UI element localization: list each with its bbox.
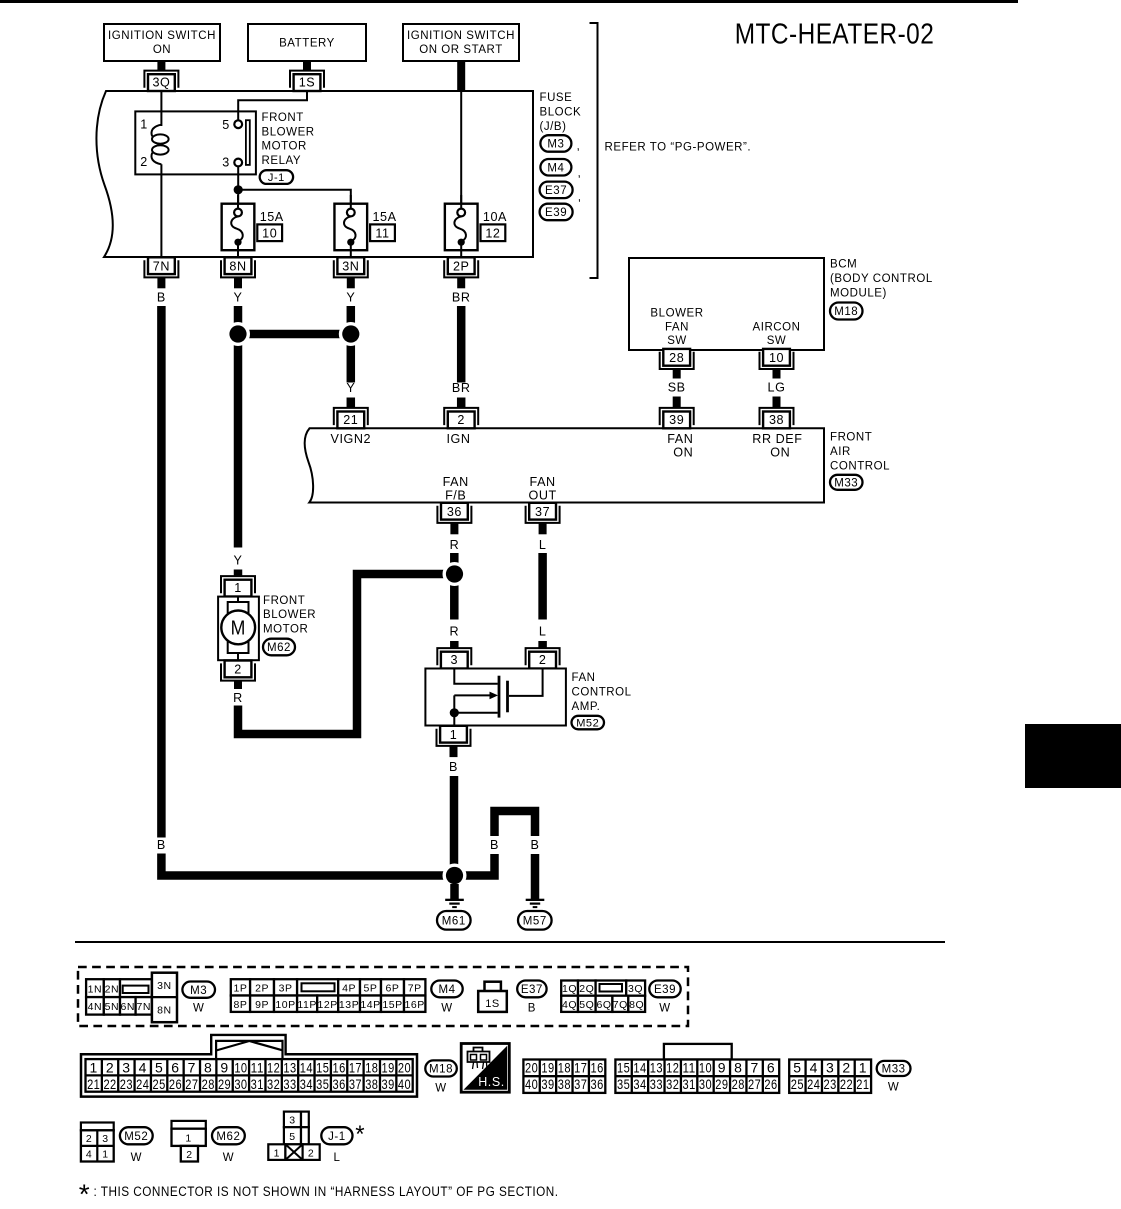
fuse number box 12 — [481, 224, 506, 241]
svg-text:IGN: IGN — [446, 432, 470, 446]
svg-text:6: 6 — [767, 1060, 775, 1076]
svg-text:B: B — [528, 1003, 536, 1015]
connector face J-1 — [284, 1112, 301, 1128]
svg-text:REFER TO “PG-POWER”.: REFER TO “PG-POWER”. — [605, 142, 752, 154]
stub below motor — [234, 681, 242, 689]
stub from BATTERY to 1S — [303, 61, 311, 72]
svg-text:M52: M52 — [124, 1131, 148, 1143]
svg-text:33: 33 — [650, 1076, 663, 1092]
svg-text:8: 8 — [734, 1060, 742, 1076]
svg-text:23: 23 — [120, 1076, 133, 1092]
svg-text:W: W — [441, 1003, 452, 1015]
front blower motor body — [218, 597, 259, 661]
svg-text:OUT: OUT — [528, 488, 556, 502]
BCM connector 10 — [760, 352, 794, 369]
svg-text:R: R — [449, 625, 459, 639]
svg-text:M62: M62 — [216, 1131, 240, 1143]
svg-text:2: 2 — [842, 1060, 850, 1076]
svg-text:1: 1 — [90, 1059, 98, 1075]
svg-text:14: 14 — [300, 1059, 313, 1075]
connector oval M18 id — [425, 1060, 457, 1076]
wire 1S to relay pin 5 — [238, 91, 307, 120]
connector oval M52 id — [120, 1127, 153, 1144]
relay pin 5 contact circle — [234, 120, 242, 128]
svg-text:12P: 12P — [318, 999, 338, 1011]
svg-text:9: 9 — [718, 1060, 726, 1076]
svg-text:10: 10 — [262, 227, 277, 241]
svg-text:18: 18 — [558, 1060, 571, 1076]
stub below 3N — [347, 278, 355, 289]
svg-text:7N: 7N — [153, 259, 170, 273]
svg-text:E37: E37 — [545, 185, 567, 197]
blower motor connector 1 — [221, 576, 255, 593]
svg-text:M33: M33 — [882, 1064, 906, 1076]
svg-text:IGNITION SWITCH: IGNITION SWITCH — [108, 30, 216, 42]
wire B loop to M57 ground — [459, 854, 495, 876]
motor symbol M circle — [221, 611, 255, 645]
connector oval M18 — [830, 303, 863, 320]
dashed connector group border — [78, 967, 688, 1026]
svg-text:26: 26 — [764, 1076, 777, 1092]
svg-text:14P: 14P — [360, 999, 380, 1011]
svg-text:7Q: 7Q — [613, 999, 628, 1011]
stub above 39 — [673, 397, 681, 408]
svg-text:15P: 15P — [382, 999, 402, 1011]
connector 8N — [221, 260, 255, 277]
svg-text:15A: 15A — [373, 210, 397, 224]
connector oval J-1 id — [321, 1127, 352, 1144]
svg-text:25: 25 — [153, 1076, 166, 1092]
connector oval M33 — [830, 475, 863, 490]
svg-text:29: 29 — [218, 1076, 231, 1092]
svg-text:24: 24 — [136, 1076, 149, 1092]
svg-text:33: 33 — [283, 1076, 296, 1092]
connector 36 — [437, 506, 471, 523]
svg-text:,: , — [577, 139, 581, 153]
svg-text:B: B — [490, 838, 499, 852]
connector 3Q — [144, 71, 178, 88]
svg-text:13: 13 — [283, 1059, 296, 1075]
svg-text:B: B — [449, 760, 458, 774]
svg-text:12: 12 — [666, 1060, 679, 1076]
svg-text:RELAY: RELAY — [262, 155, 302, 167]
svg-text:Y: Y — [346, 291, 355, 305]
svg-text:BLOWER: BLOWER — [263, 609, 316, 621]
svg-text:5Q: 5Q — [579, 999, 594, 1011]
svg-text:SB: SB — [668, 381, 686, 395]
relay pin 3 contact circle — [234, 159, 242, 167]
svg-text:ON: ON — [153, 44, 171, 56]
svg-text:R: R — [233, 691, 243, 705]
svg-text:BLOWER: BLOWER — [262, 126, 315, 138]
stub to M61 ground — [450, 884, 459, 899]
connector oval M62 id — [212, 1127, 245, 1144]
fan control amp box — [425, 669, 566, 726]
svg-text:8N: 8N — [157, 1005, 172, 1017]
svg-text:12: 12 — [485, 227, 500, 241]
svg-text:1: 1 — [140, 118, 148, 132]
svg-text:SW: SW — [667, 335, 687, 347]
svg-text:FAN: FAN — [665, 321, 689, 333]
BCM connector 28 — [660, 352, 694, 369]
svg-text:CONTROL: CONTROL — [572, 686, 632, 698]
svg-text:L: L — [334, 1152, 341, 1164]
svg-text:16: 16 — [591, 1060, 604, 1076]
svg-text:16P: 16P — [405, 999, 425, 1011]
svg-text:BLOWER: BLOWER — [650, 307, 703, 319]
svg-text:M33: M33 — [834, 477, 858, 489]
wire Y junction crossbar — [238, 330, 351, 339]
svg-text:27: 27 — [748, 1076, 761, 1092]
FRONT AIR CONTROL box with torn left edge — [305, 428, 824, 502]
right bracket — [590, 23, 598, 278]
H.S. view icon — [464, 1046, 508, 1090]
svg-text:2Q: 2Q — [579, 983, 594, 995]
svg-text:15: 15 — [617, 1060, 630, 1076]
svg-text:10: 10 — [234, 1059, 247, 1075]
svg-text:FRONT: FRONT — [262, 112, 304, 124]
svg-text:3: 3 — [102, 1133, 108, 1145]
svg-text:BATTERY: BATTERY — [279, 38, 335, 50]
svg-text:21: 21 — [343, 413, 358, 427]
svg-text:15A: 15A — [260, 210, 284, 224]
connector 38 — [760, 408, 794, 425]
connector oval M4 id — [431, 981, 462, 998]
fan control amp connector 1 — [437, 729, 471, 746]
svg-text:M3: M3 — [547, 139, 564, 151]
svg-text:J-1: J-1 — [268, 172, 285, 184]
svg-text:M4: M4 — [547, 162, 564, 174]
svg-text:9P: 9P — [255, 999, 269, 1011]
power source box IGNITION SWITCH ON — [104, 24, 220, 61]
svg-text:E39: E39 — [654, 984, 676, 996]
svg-text:MODULE): MODULE) — [830, 287, 887, 299]
svg-text:18: 18 — [365, 1059, 378, 1075]
svg-text:FUSE: FUSE — [540, 92, 573, 104]
wire Y from 8N to junction — [234, 306, 243, 334]
svg-text:3N: 3N — [342, 259, 359, 273]
svg-text:16: 16 — [332, 1059, 345, 1075]
stub above 38 — [773, 397, 781, 408]
svg-text:36: 36 — [332, 1076, 345, 1092]
svg-text:2: 2 — [106, 1059, 114, 1075]
stub below 2P — [457, 278, 465, 289]
svg-text:4Q: 4Q — [562, 999, 577, 1011]
svg-text:CONTROL: CONTROL — [830, 461, 890, 473]
svg-text:12: 12 — [267, 1059, 280, 1075]
svg-text:5N: 5N — [105, 1001, 120, 1013]
svg-text:2: 2 — [234, 663, 242, 677]
svg-text:39: 39 — [382, 1076, 395, 1092]
svg-text:SW: SW — [767, 335, 787, 347]
page top rule — [0, 0, 1018, 3]
svg-text:22: 22 — [840, 1076, 853, 1092]
svg-text:M18: M18 — [834, 306, 858, 318]
svg-text:31: 31 — [251, 1076, 264, 1092]
svg-text:4: 4 — [810, 1060, 818, 1076]
stub below 8N — [234, 278, 242, 289]
svg-text:1S: 1S — [485, 998, 500, 1010]
svg-text:39: 39 — [541, 1076, 554, 1092]
svg-text:6P: 6P — [386, 983, 400, 995]
svg-text:LG: LG — [768, 381, 786, 395]
svg-text:11P: 11P — [297, 999, 317, 1011]
svg-text:27: 27 — [185, 1076, 198, 1092]
svg-text:38: 38 — [769, 413, 784, 427]
svg-text:*: * — [355, 1121, 365, 1148]
junction dot R — [443, 562, 467, 586]
svg-text:RR DEF: RR DEF — [752, 432, 802, 446]
connector face 1S — [485, 982, 501, 993]
svg-text:R: R — [450, 538, 460, 552]
svg-text:10A: 10A — [483, 210, 507, 224]
connector face M52 — [81, 1123, 114, 1131]
svg-text:31: 31 — [683, 1076, 696, 1092]
svg-text:W: W — [193, 1003, 204, 1015]
svg-text:2: 2 — [539, 653, 547, 667]
svg-text:M4: M4 — [438, 984, 455, 996]
svg-text:7: 7 — [188, 1059, 196, 1075]
svg-text:1: 1 — [859, 1060, 867, 1076]
svg-text:13: 13 — [650, 1060, 663, 1076]
wire B from amp to ground junction — [450, 776, 459, 871]
svg-text:,: , — [578, 166, 582, 180]
svg-text:13P: 13P — [339, 999, 359, 1011]
svg-text:21: 21 — [856, 1076, 869, 1092]
svg-text:MTC-HEATER-02: MTC-HEATER-02 — [735, 19, 935, 51]
svg-text:28: 28 — [732, 1076, 745, 1092]
svg-text:26: 26 — [169, 1076, 182, 1092]
svg-text:6Q: 6Q — [596, 999, 611, 1011]
wire BR from 2P to FRONT AIR CONTROL pin 2 — [457, 306, 466, 383]
connector 2P — [444, 260, 478, 277]
svg-text:2: 2 — [140, 155, 148, 169]
svg-text:J-1: J-1 — [328, 1131, 346, 1143]
svg-text:23: 23 — [824, 1076, 837, 1092]
junction dot Y 2 — [339, 322, 363, 346]
svg-text:38: 38 — [365, 1076, 378, 1092]
svg-text:39: 39 — [669, 413, 684, 427]
svg-text:17: 17 — [574, 1060, 587, 1076]
svg-text:8: 8 — [204, 1059, 212, 1075]
svg-text:M52: M52 — [576, 718, 599, 730]
svg-text:8P: 8P — [233, 999, 247, 1011]
svg-text:32: 32 — [666, 1076, 679, 1092]
svg-text:34: 34 — [633, 1076, 646, 1092]
svg-text:11: 11 — [683, 1060, 696, 1076]
svg-text:1: 1 — [450, 728, 458, 742]
connector face M3 cells 1N-8N — [86, 979, 104, 997]
svg-text:(J/B): (J/B) — [540, 121, 567, 133]
svg-text:H.S.: H.S. — [478, 1075, 505, 1089]
svg-text:1S: 1S — [299, 76, 316, 90]
svg-text:2P: 2P — [255, 983, 269, 995]
svg-text:FAN: FAN — [443, 475, 469, 489]
svg-text:3P: 3P — [279, 983, 293, 995]
svg-text:5: 5 — [155, 1059, 163, 1075]
svg-text:32: 32 — [267, 1076, 280, 1092]
svg-text:2: 2 — [186, 1149, 192, 1161]
svg-text:B: B — [157, 291, 166, 305]
thick wire from IGNITION SWITCH ON OR START into fuse block — [457, 61, 465, 92]
wire R from 36 to fan control amp pin 3 — [450, 553, 459, 620]
svg-text:5: 5 — [289, 1131, 295, 1143]
junction dot Y — [226, 322, 250, 346]
fan control amp connector 3 — [437, 648, 471, 665]
connector 39 — [660, 408, 694, 425]
svg-text:Y: Y — [234, 291, 243, 305]
connector 1S — [290, 71, 324, 88]
connector 2 — [444, 408, 478, 425]
svg-text:37: 37 — [535, 505, 550, 519]
connector oval M52 — [572, 716, 605, 730]
svg-text:3N: 3N — [157, 980, 172, 992]
relay coil L1 — [151, 125, 161, 137]
connector 37 — [526, 506, 560, 523]
fan control amp connector 2 — [526, 648, 560, 665]
connector face M4 cells 1P-16P — [231, 979, 250, 995]
svg-text:19: 19 — [382, 1059, 395, 1075]
svg-text:1Q: 1Q — [562, 983, 577, 995]
svg-text:8Q: 8Q — [629, 999, 644, 1011]
svg-text:FAN: FAN — [530, 475, 556, 489]
svg-text:20: 20 — [398, 1059, 411, 1075]
svg-text:BR: BR — [452, 291, 471, 305]
stub below 28 — [673, 369, 681, 378]
junction dot B — [443, 864, 467, 888]
svg-text:3: 3 — [451, 653, 459, 667]
BCM box — [629, 258, 824, 350]
ground symbol M57 — [526, 899, 545, 901]
svg-text:2N: 2N — [105, 983, 120, 995]
svg-text:FAN: FAN — [572, 672, 596, 684]
connector oval M4 — [540, 159, 571, 176]
svg-text:38: 38 — [558, 1076, 571, 1092]
svg-text:W: W — [888, 1082, 899, 1094]
svg-text:40: 40 — [398, 1076, 411, 1092]
svg-text:40: 40 — [525, 1076, 538, 1092]
svg-text:MOTOR: MOTOR — [262, 141, 307, 153]
svg-text:17: 17 — [349, 1059, 362, 1075]
svg-text:7: 7 — [750, 1060, 758, 1076]
svg-text:AMP.: AMP. — [572, 701, 601, 713]
svg-text:FRONT: FRONT — [263, 595, 305, 607]
svg-text:29: 29 — [715, 1076, 728, 1092]
svg-text:14: 14 — [633, 1060, 646, 1076]
svg-text:ON OR START: ON OR START — [419, 44, 503, 56]
svg-text:1N: 1N — [88, 983, 103, 995]
svg-text:AIRCON: AIRCON — [752, 321, 800, 333]
svg-text:10: 10 — [769, 351, 784, 365]
svg-text:FRONT: FRONT — [830, 432, 872, 444]
svg-text:3: 3 — [826, 1060, 834, 1076]
svg-text:10P: 10P — [275, 999, 295, 1011]
blower motor connector 2 — [221, 663, 255, 680]
wire 3Q to relay coil — [160, 91, 162, 126]
svg-text:M: M — [231, 617, 246, 639]
wire junction to fuse 10 — [237, 190, 239, 209]
fuse 10A (fuse 12) — [445, 204, 478, 251]
svg-text:24: 24 — [807, 1076, 820, 1092]
wire Y from junction to FRONT AIR CONTROL pin 21 — [347, 334, 356, 383]
svg-text:B: B — [450, 838, 459, 852]
svg-text:21: 21 — [87, 1076, 100, 1092]
svg-text:B: B — [531, 838, 540, 852]
svg-text:19: 19 — [541, 1060, 554, 1076]
svg-text:4P: 4P — [342, 983, 356, 995]
svg-text:W: W — [659, 1003, 670, 1015]
svg-text:11: 11 — [251, 1059, 264, 1075]
ground oval M57 — [518, 911, 552, 930]
svg-text:5: 5 — [222, 118, 230, 132]
svg-text:7P: 7P — [408, 983, 422, 995]
svg-text:F/B: F/B — [445, 488, 466, 502]
wire Y from junction down to blower motor — [234, 334, 243, 548]
svg-text:3: 3 — [289, 1115, 295, 1127]
wire B from 7N down and across to ground junction — [157, 306, 166, 838]
svg-text:IGNITION SWITCH: IGNITION SWITCH — [407, 30, 515, 42]
stub below amp pin 1 — [450, 746, 458, 757]
svg-text:30: 30 — [234, 1076, 247, 1092]
wire Y from 3N to junction — [347, 306, 356, 334]
svg-text:28: 28 — [202, 1076, 215, 1092]
svg-text:1: 1 — [102, 1148, 108, 1160]
connector 21 — [334, 408, 368, 425]
svg-text:W: W — [435, 1082, 446, 1094]
svg-text:25: 25 — [791, 1076, 804, 1092]
svg-text:6N: 6N — [121, 1001, 136, 1013]
connector oval M33 id — [877, 1061, 911, 1076]
svg-text:: THIS CONNECTOR IS NOT SHOWN: : THIS CONNECTOR IS NOT SHOWN IN “HARNES… — [94, 1184, 559, 1199]
wire coil pin 2 down to 7N — [160, 164, 162, 257]
page edge marker — [1025, 724, 1121, 788]
stub below 36 — [450, 523, 458, 534]
ground symbol M61 — [445, 899, 464, 901]
fuse 15A (fuse 10) — [222, 204, 255, 251]
connector 3N — [334, 260, 368, 277]
svg-text:3Q: 3Q — [628, 983, 643, 995]
svg-text:2: 2 — [86, 1133, 92, 1145]
svg-text:B: B — [157, 838, 166, 852]
connector face M33 40-pin — [664, 1044, 732, 1060]
svg-text:22: 22 — [103, 1076, 116, 1092]
connector 7N — [144, 260, 178, 277]
svg-text:37: 37 — [349, 1076, 362, 1092]
wire junction to fuse 11 — [238, 190, 351, 209]
svg-text:35: 35 — [617, 1076, 630, 1092]
svg-text:4N: 4N — [88, 1001, 103, 1013]
connector face M62 — [172, 1121, 206, 1129]
svg-text:30: 30 — [699, 1076, 712, 1092]
svg-text:36: 36 — [447, 505, 462, 519]
svg-text:M62: M62 — [267, 642, 291, 654]
wire L from 37 to fan control amp pin 2 — [538, 553, 547, 620]
front blower motor relay box — [135, 111, 256, 174]
svg-text:34: 34 — [300, 1076, 313, 1092]
svg-text:*: * — [79, 1179, 90, 1209]
M18 housing tab — [211, 1035, 285, 1056]
svg-text:2P: 2P — [453, 259, 470, 273]
svg-text:36: 36 — [591, 1076, 604, 1092]
svg-text:2: 2 — [457, 413, 465, 427]
wire from fuse block edge to fuse 12 — [460, 91, 462, 209]
svg-text:5: 5 — [793, 1060, 801, 1076]
svg-text:Y: Y — [234, 553, 243, 567]
svg-text:W: W — [223, 1152, 234, 1164]
svg-text:FAN: FAN — [667, 432, 693, 446]
svg-text:8N: 8N — [229, 259, 246, 273]
svg-text:4: 4 — [139, 1059, 147, 1075]
